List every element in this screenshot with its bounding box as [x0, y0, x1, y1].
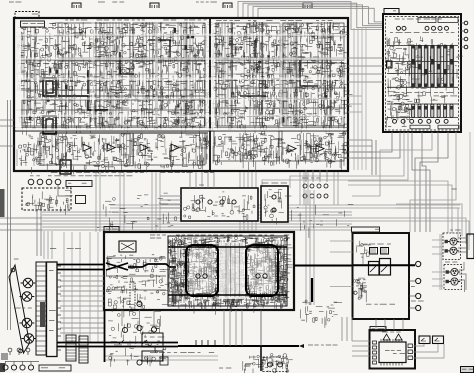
capacitor power bottom C10 [393, 119, 397, 123]
node top margin part note label text [98, 2, 124, 3]
wire input to output wires C [60, 318, 104, 333]
capacitor block output [119, 241, 136, 252]
wire mid routing bundle [42, 212, 352, 230]
node board label row B5 label text [214, 98, 339, 99]
wire output R-ch block texture [228, 237, 293, 313]
node power aux terminal 2 [464, 29, 468, 33]
lamp fuse F2 [122, 327, 127, 332]
node DIN connector A2 [447, 247, 459, 254]
relay line fuse box 2 [142, 351, 163, 361]
node R channel controlled note label text [228, 300, 264, 301]
power switch box inner dashed [386, 17, 459, 131]
wire lamp driver parts texture [26, 190, 73, 215]
wire board comb 3 [104, 22, 122, 128]
wire driver stage mid texture [95, 23, 216, 137]
wire fuse lamp group texture [108, 309, 166, 367]
wire terminal group feeds [440, 234, 442, 290]
op-amp sub-block 3 [58, 61, 130, 96]
wire board vertical bus [96, 22, 186, 130]
lamp fuse F1 [137, 301, 142, 306]
wire right of board wires [354, 28, 366, 170]
capacitor power bottom C12 [410, 119, 414, 123]
op-amp IC2-b [171, 144, 179, 151]
node output tab text label text [106, 229, 118, 230]
node board label row 1 label text [18, 27, 205, 28]
wire connector B wire 3 [459, 280, 465, 292]
node equalizer section title label text [216, 20, 333, 21]
lamp PL2 [37, 179, 43, 185]
node board label row B3 label text [214, 62, 344, 63]
wire connector B wire 2 [459, 274, 466, 290]
node corner page note label text [9, 2, 21, 3]
wire heavy signal pair bottom [57, 343, 178, 347]
node panel screw bottom [19, 349, 23, 353]
wire relay heavy through-line [353, 264, 415, 266]
relay RY1 core [46, 81, 53, 93]
wire top feed to power box 5 [258, 8, 383, 22]
op-amp sub-block 7 [216, 23, 280, 60]
op-amp IC1-a [83, 144, 91, 151]
node power aux terminal 3 [464, 37, 468, 41]
transistor R-ch driver Q3 [256, 274, 260, 278]
wire strip B hatches [79, 339, 88, 360]
wire VU left needle [421, 338, 426, 341]
wire lamp feed wires [37, 210, 41, 256]
node tape box label label text [199, 185, 204, 186]
node speaker terminal T2 [416, 278, 421, 283]
node board row gap 1 [16, 34, 346, 36]
wire speaker heavy link [294, 265, 353, 267]
node POWER tab text label text [393, 10, 396, 11]
transistor output L-ch sub-board [168, 236, 228, 306]
wire output block comb 4 [272, 240, 284, 303]
node DIN connector A1 [447, 238, 459, 245]
node power aux terminal 4 [464, 45, 468, 49]
transistor Q301 [272, 195, 276, 199]
transistor Q302 [272, 208, 276, 212]
lamp PL4 [55, 179, 61, 185]
wire top feed to power box 4 [253, 7, 383, 24]
wire left entry to board [0, 120, 14, 146]
wire mid bundle extension 2 [352, 221, 469, 250]
wire mid routing bundle right [110, 205, 460, 208]
wire terminal T1 lead [409, 281, 415, 308]
node page number label text [462, 369, 473, 370]
wire board comb 4 [143, 22, 156, 128]
node connector group B label label text [445, 262, 457, 263]
wire connector B wire 1 [459, 262, 464, 270]
wire strip wiring forest A [17, 135, 207, 167]
node input jack J2 [20, 292, 35, 302]
wire board heavy trace 1 [58, 96, 108, 110]
node board label row 4 label text [18, 81, 202, 82]
wire power sweep bundle 3 [352, 132, 432, 196]
op-amp IC3-a [288, 145, 296, 152]
wire RL2 hatch [382, 248, 386, 254]
wire output internal rails [106, 258, 166, 290]
node board label row B4 label text [214, 80, 338, 81]
node line fuse text label text [144, 337, 164, 342]
node METER LIGHT bottom label [39, 365, 71, 371]
node top connector tab 3 [223, 3, 232, 8]
node relay labels label text [369, 244, 391, 245]
wire strip comb 1 [52, 134, 66, 164]
wire board heavy trace 5 [300, 60, 318, 86]
node DIN connector B2 [448, 278, 460, 285]
node power header label L [418, 18, 436, 23]
wire power sweep bundle 2 [262, 132, 408, 186]
node OUTPUT label tab [104, 227, 119, 233]
relay RL1 [370, 248, 378, 255]
wire power box drop 1 [352, 132, 392, 152]
node output block label row 1 label text [170, 245, 284, 246]
wire output block forest [169, 244, 283, 304]
node terminal labels 2 label text [411, 301, 424, 302]
node top connector tab 2 [150, 3, 159, 8]
node top margin part note 2 label text [196, 2, 217, 3]
capacitor power bottom C14 [427, 119, 431, 123]
node board label row 6 label text [18, 117, 205, 118]
op-amp output amplifier box [104, 232, 294, 310]
transistor Q204 [232, 200, 236, 204]
node to meter lamp note label text [308, 345, 338, 346]
node board col gap 1 [92, 22, 95, 127]
node bottom connector strip A [66, 335, 76, 361]
node lamp driver dashed box [22, 188, 71, 210]
transistor bottom Q1 [268, 362, 273, 367]
transistor bottom Q2 [278, 362, 283, 367]
node board bottom note line2 label text [30, 175, 132, 176]
node rear input panel outline [9, 265, 30, 353]
wire right margin drop [469, 132, 471, 236]
node DIN connector B1 [448, 268, 460, 275]
node DRIVE inner label [21, 21, 45, 27]
transistor L-ch driver Q2 [203, 274, 207, 278]
wire bottom lamp drops [6, 361, 32, 365]
node bottom left stub box [160, 357, 168, 365]
wire fuse group risers [122, 310, 154, 326]
wire main board band divider [14, 130, 348, 132]
node meter light label text label text [68, 183, 87, 184]
wire power box drop 6 [415, 132, 448, 232]
wire output left border extension [104, 310, 106, 362]
lamp fuse F5 [137, 360, 142, 365]
lamp symbol small 2 [17, 348, 21, 355]
wire output left section texture [106, 254, 170, 308]
lamp dial PL13 [20, 365, 25, 370]
wire output box bottom drops [224, 310, 242, 346]
wire strip comb 2 [120, 134, 134, 164]
node connector pad B2 [446, 280, 449, 283]
capacitor power C3 [425, 26, 429, 30]
wire relay box parts upper texture [356, 241, 371, 264]
node output block label row 4 label text [183, 294, 285, 295]
node panel screw top [11, 268, 15, 272]
wire meter to VU wire 1 [413, 344, 425, 346]
node speaker terminal T3 [416, 293, 421, 298]
capacitor electrolytic bodies [29, 28, 327, 123]
wire meter to VU wire 2 [413, 344, 439, 352]
wire bottom-left cross wires [64, 232, 98, 342]
wire input terminal pins [57, 266, 61, 350]
lamp PL3 [46, 179, 52, 185]
wire output block comb 3 [232, 240, 241, 303]
op-amp sub-block 9 [216, 63, 280, 126]
node to power supply note label text [50, 248, 81, 249]
wire top feed to power box 3 [248, 5, 383, 26]
wire driver stage left texture [18, 22, 101, 137]
wire input terminal risers [44, 231, 52, 259]
node CN1 dark section [40, 302, 45, 327]
wire meter input wires [352, 341, 370, 356]
wire left margin links [0, 218, 42, 230]
node board col gap 2 [155, 22, 158, 127]
op-amp power switch box outline [383, 14, 461, 132]
wire output L-ch block texture [168, 236, 235, 315]
node relay side note label text [356, 279, 367, 286]
wire strip A hatches [66, 338, 76, 359]
node output block label row 2 label text [170, 261, 282, 262]
wire strip comb 3 [196, 134, 206, 164]
node input jack J3 [20, 318, 35, 328]
wire tone amp strip A texture [19, 133, 210, 175]
node power aux terminal 1 [464, 21, 468, 25]
node bottom meter light text label text [41, 367, 65, 368]
wire power bank1 wires [409, 45, 454, 87]
wire power box drop 4 [422, 132, 426, 232]
wire power bank1 rails [387, 46, 458, 88]
node scan smudge left edge [0, 189, 5, 217]
wire bottom protector parts texture [243, 353, 293, 373]
op-amp sub-block 1 [58, 23, 130, 58]
transistor meter amp TR1 [383, 334, 390, 340]
wire fuse switch arcs [119, 340, 147, 344]
node board label row 5 label text [29, 99, 204, 100]
wire board wiring forest A [17, 24, 205, 128]
node DRIVE label tab [15, 12, 39, 19]
wire heavy signal pair top [57, 265, 104, 270]
op-amp meter box [370, 330, 416, 369]
wire mid-right fuse parts texture [301, 300, 342, 328]
node board bottom note line3 label text [160, 172, 214, 173]
wire power left column parts texture [386, 39, 417, 94]
op-amp sub-block 5 [22, 100, 90, 126]
node board col gap 3 [280, 22, 283, 126]
relay contact R [380, 259, 391, 276]
wire strip wiring forest B [213, 135, 339, 161]
node output block label row 3 label text [170, 278, 279, 279]
node VU meter left [419, 336, 430, 344]
node relay channel note label text [366, 304, 395, 305]
relay RY3 coil [60, 160, 71, 174]
node power circles caption label text [390, 32, 454, 33]
op-amp IC3-b [316, 145, 324, 152]
wire output block comb 1 [172, 240, 184, 303]
node connector group A label label text [450, 230, 461, 231]
wire board heavy trace 7 [254, 40, 256, 58]
wire board comb 6 [216, 22, 231, 126]
wire equalizer stage texture [212, 22, 353, 135]
wire tone amp strip B texture [213, 131, 348, 172]
wire sweep wire right 4 [396, 208, 458, 240]
wire bottom heavy drop [260, 346, 262, 371]
node output parts header label text [150, 235, 289, 239]
node power header label R [438, 18, 458, 23]
wire mid stray parts texture [97, 193, 176, 236]
wire left margin bus [8, 100, 11, 330]
node power bottom label R [438, 125, 459, 129]
transistor Q202 [208, 200, 212, 204]
node board divider gutter right [211, 20, 214, 128]
node power bottom label L [410, 125, 430, 129]
transistor L-ch driver Q1 [196, 274, 200, 278]
relay RY1 coil [43, 78, 56, 96]
wire board comb 7 [250, 22, 263, 126]
node speaker terminal T1 [416, 261, 421, 266]
wire RL1 hatch [371, 248, 375, 254]
node scan mark bottom-left B [0, 363, 5, 372]
lamp dial PL14 [28, 365, 33, 370]
wire board wiring forest B [213, 23, 332, 126]
lamp dial PL12 [11, 365, 16, 370]
node board row gap 2 [16, 58, 346, 60]
wire mid drops right [300, 172, 338, 205]
node connector pad A2 [445, 249, 448, 252]
relay power switch bank 1 [412, 45, 454, 87]
op-amp sub-block 4 [133, 61, 205, 96]
node bottom connector strip B [79, 336, 88, 363]
transistor meter driver IC [379, 342, 406, 363]
wire tone strip divider [40, 132, 208, 134]
op-amp sub-block 8 [283, 23, 344, 60]
node input terminal block [47, 262, 58, 357]
wire meter feed drops [342, 317, 352, 341]
wire board horizontal bus [16, 60, 208, 110]
wire VU right needle [435, 338, 440, 341]
node board row gap 4 [16, 98, 346, 100]
wire power box drop 2 [352, 132, 400, 158]
wire board vertical bus B [232, 22, 330, 128]
wire tape box parts texture [183, 192, 255, 224]
node speaker run arrow [299, 344, 304, 348]
wire relay box parts texture [353, 278, 367, 302]
wire power bank2 rails [387, 104, 458, 118]
wire top feed to power box 1 [238, 2, 383, 30]
wire strip comb 4 [240, 133, 254, 160]
node board row gap 3 [16, 78, 346, 80]
op-amp sub-block 6 [95, 100, 205, 126]
node input jack J4 [22, 334, 37, 344]
node top connector tab 4 [303, 3, 312, 8]
node speakers label label text [302, 178, 320, 179]
node connector pad A1 [445, 240, 448, 243]
wire board comb 2 [62, 24, 75, 128]
wire prot box parts texture [264, 190, 292, 225]
wire power aux lead 3 [461, 38, 464, 40]
wire tape box feed drop [190, 172, 214, 188]
wire mid stray parts right texture [292, 204, 354, 238]
node top connector tab 1 [72, 3, 81, 8]
wire power bank2 left parts texture [386, 95, 414, 128]
wire meter IC pins top [381, 339, 402, 342]
op-amp main amplifier board outline [14, 18, 348, 171]
wire speaker switch drops [306, 170, 327, 182]
wire board heavy trace 6 [120, 52, 134, 74]
capacitor power C4 [432, 26, 436, 30]
wire speaker heavy bar [311, 278, 313, 302]
resistor power block [387, 61, 393, 68]
capacitor power bottom C15 [436, 119, 440, 123]
wire board comb 8 [282, 22, 297, 126]
wire board horizontal bus C [16, 36, 346, 74]
wire mid bundle extension 1 [352, 218, 466, 244]
node main board title label text [65, 20, 207, 21]
capacitor power bottom C16 [444, 119, 448, 123]
transistor R-ch driver Q4 [263, 274, 267, 278]
lamp fuse F3 [137, 325, 142, 330]
wire power sweep bundle 1 [290, 132, 404, 188]
node speaker connector group B [444, 265, 462, 290]
wire CN1 hatches [36, 266, 46, 351]
wire board horizontal bus B [212, 58, 346, 108]
node output bottom label row label text [170, 300, 279, 301]
wire top feed to power box 2 [243, 3, 383, 27]
transistor output L-ch power ring [186, 245, 218, 296]
relay line fuse box [142, 333, 163, 347]
lamp fuse F4 [151, 327, 156, 332]
node board bottom note line1 label text [51, 172, 144, 173]
node board row gap 5 [16, 115, 346, 117]
wire speaker feed risers [306, 190, 314, 305]
node VU meter right [433, 336, 444, 344]
relay RY2 coil [43, 116, 56, 134]
node board label row B6 label text [214, 116, 342, 117]
node power mid label row label text [388, 92, 457, 96]
resistor block lamp [76, 196, 86, 204]
node bottom fuse dashed box [263, 357, 287, 372]
capacitor power C2 [402, 26, 406, 30]
op-amp sub-block 11 [40, 133, 130, 165]
node board strip gap [16, 128, 346, 130]
capacitor power C6 [445, 26, 449, 30]
wire strip comb 5 [300, 133, 314, 160]
wire output cap cross [121, 243, 134, 250]
op-amp IC2-a [140, 144, 148, 151]
node bottom board note label text [219, 368, 231, 369]
wire board heavy trace 2 [87, 70, 89, 94]
node meter IC part number label text [385, 350, 405, 354]
wire meter IC pins bottom [381, 363, 402, 366]
wire input to output wires A [60, 276, 104, 291]
wire lamp link wire [58, 185, 71, 196]
capacitor power bottom C13 [418, 119, 422, 123]
node input panel top note label text [14, 259, 19, 260]
node METER LIGHT label [66, 181, 92, 187]
wire bottom thin drop [260, 310, 262, 346]
wire meter to VU wire 3 [413, 344, 445, 358]
op-amp sub-block 12 [133, 133, 205, 165]
wire relay feeds from left [330, 241, 353, 287]
wire output block heavy rails [168, 247, 287, 295]
wire speaker run pins [196, 340, 215, 346]
op-amp sub-block 14 [282, 131, 344, 161]
node output relay tab text label text [375, 229, 379, 230]
node terminal labels label text [411, 286, 415, 287]
wire output gap wires [226, 243, 240, 297]
node output connector strip [130, 282, 135, 308]
wire input to output wires B [60, 296, 104, 311]
op-amp sub-block 10 [283, 63, 344, 126]
